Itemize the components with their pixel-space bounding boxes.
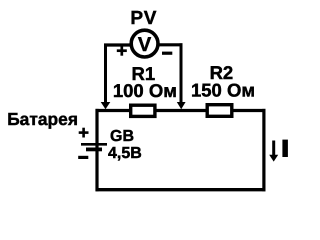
svg-text:150 Ом: 150 Ом (191, 79, 255, 100)
polarity - at battery (78, 156, 88, 159)
svg-text:V: V (138, 34, 152, 56)
wire: voltmeter left lead vertical (104, 44, 107, 104)
current arrow I (down along right wire) (269, 141, 278, 162)
junction arrow: voltmeter left tap onto bus (101, 102, 111, 109)
wire: main horizontal bus (node between battery +, R1, R2) (96, 109, 266, 112)
svg-text:4,5В: 4,5В (108, 145, 142, 162)
polarity + at battery (79, 128, 89, 138)
wire: right vertical (262, 109, 265, 191)
junction arrow: voltmeter right tap onto bus (177, 102, 186, 109)
wire: left vertical branch through battery (95, 109, 98, 191)
wire: voltmeter top-right lead (157, 43, 183, 46)
svg-text:Батарея: Батарея (7, 109, 78, 129)
label I (current) (282, 140, 288, 157)
battery GB cell: short negative plate (86, 147, 102, 151)
polarity - at voltmeter right (162, 52, 172, 55)
svg-text:GB: GB (110, 128, 134, 145)
battery GB cell: long positive plate (81, 143, 107, 146)
voltmeter PV symbol (circle) (131, 30, 158, 57)
svg-text:100 Ом: 100 Ом (113, 80, 177, 101)
resistor R2 (body) (207, 105, 232, 117)
wire: bottom return (96, 188, 266, 191)
resistor R1 (body) (131, 105, 155, 116)
wire: voltmeter right lead vertical (180, 43, 183, 103)
polarity + at voltmeter left (117, 46, 127, 56)
wire: voltmeter top-left lead (104, 43, 132, 46)
svg-text:PV: PV (130, 8, 157, 29)
